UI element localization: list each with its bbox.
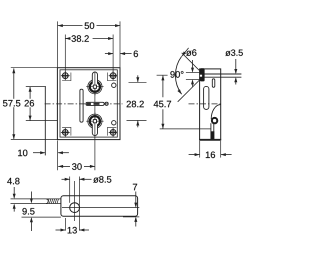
latch knob — [212, 118, 217, 123]
dimension 45.7 — [154, 75, 171, 128]
dimension 30 — [58, 163, 95, 170]
dimension 38.2 extension line left — [64, 35, 66, 73]
bottom view rod stub and 4.8 extension lines — [11, 199, 61, 204]
dimension 50 extension line right — [119, 21, 121, 67]
dimension 57.5 — [3, 68, 20, 139]
front view case inner lip outline — [60, 70, 117, 137]
latch arc — [211, 105, 221, 120]
dimension 45.7 extension line top — [157, 74, 168, 76]
bottom view cylinder circle — [70, 203, 80, 213]
90 degree arc — [175, 56, 181, 94]
diameter 3.5 dimension — [234, 59, 237, 85]
diameter 8.5 tangent extension left — [69, 177, 71, 203]
dimension 13 extension left — [65, 218, 67, 231]
mounting screw hole 4 with corner bracket — [108, 127, 118, 136]
bottom view cylinder horizontal centerline — [62, 207, 139, 209]
pin shaft lines — [205, 74, 242, 77]
lower keyhole boss with slot — [86, 113, 103, 136]
dimension 7 — [133, 184, 137, 227]
dimension 57.5 extension line top — [11, 67, 57, 69]
diameter 6 label — [186, 49, 196, 56]
extension line below rod — [22, 216, 61, 218]
dimension 6 — [105, 51, 138, 58]
diameter 6 extension lines — [186, 73, 200, 80]
dimension 4.8 arrows — [13, 187, 16, 212]
left narrow vertical slot — [80, 89, 83, 122]
arc radial legs — [178, 53, 200, 102]
horizontal centerline (dash-dot) — [45, 103, 123, 105]
dimension 28.2 extension line bottom — [127, 119, 147, 121]
front view case outer outline — [57, 68, 120, 140]
dimension 50 — [58, 22, 120, 29]
side view short slot — [212, 79, 215, 88]
extension line lower boss level — [26, 120, 58, 122]
rod hatched tip — [48, 199, 59, 204]
dimension 7 extension bottom — [123, 216, 139, 218]
extension line upper boss level — [26, 86, 46, 88]
diameter 6 arrows — [191, 60, 194, 87]
side view long slot — [204, 86, 209, 109]
vertical centerline / extension line through spindle axis — [94, 76, 96, 170]
side view bottom plate thick edge — [199, 139, 221, 141]
central horizontal slot with slider — [86, 102, 104, 105]
dimension 8.5 dia — [62, 176, 112, 183]
dimension 45.7 extension line bottom — [160, 128, 211, 130]
side view rod cylinder dark block — [200, 68, 205, 81]
label 90 degrees — [170, 71, 183, 78]
bottom view cylinder vertical centerline — [74, 181, 76, 221]
label 9.5 — [22, 208, 34, 215]
mounting screw hole 1 with corner bracket — [61, 71, 71, 80]
diameter 6 leader line — [182, 48, 189, 56]
dimension 38.2 extension line right — [112, 35, 114, 73]
dimension 16 extension line right — [220, 141, 222, 158]
dimension 26 — [25, 87, 34, 121]
side view body outline — [200, 69, 221, 140]
dimension 13 — [56, 227, 90, 234]
side view centerline dash-dot — [189, 103, 221, 105]
dimension 16 extension line left — [199, 141, 201, 158]
mounting screw hole 2 with corner bracket — [108, 71, 118, 80]
diameter 8.5 tangent extension right — [78, 177, 80, 231]
latch legs — [211, 123, 214, 139]
label 4.8 — [7, 178, 19, 185]
dimension 10 extension line right — [57, 141, 59, 171]
dimension 10 — [18, 150, 69, 157]
small hole right of central slot — [105, 102, 108, 105]
dimension 9.5 arrows — [30, 192, 33, 232]
mounting screw hole 3 with corner bracket — [61, 127, 71, 136]
dimension 28.2 — [127, 75, 144, 127]
small hole upper right — [112, 83, 116, 87]
small hole lower right — [112, 121, 116, 125]
dimension 57.5 extension line bottom — [11, 138, 58, 140]
dimension 28.2 extension line top — [129, 81, 147, 83]
bottom view body outline — [61, 196, 138, 216]
upper keyhole boss with slot — [86, 72, 103, 96]
diameter 3.5 label — [225, 50, 242, 56]
dimension 38.2 — [65, 35, 113, 42]
rod line left of case — [44, 87, 46, 156]
dimension 50 extension line left — [56, 21, 58, 67]
dimension 16 — [189, 152, 232, 159]
dimension 10 extension line left is rod line — [0, 0, 1, 1]
